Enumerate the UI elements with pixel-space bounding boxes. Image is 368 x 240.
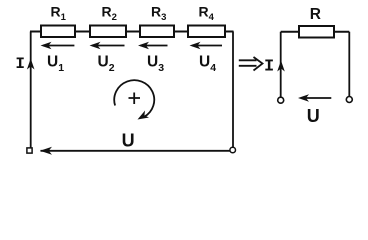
svg-text:I: I bbox=[264, 57, 274, 76]
svg-text:U: U bbox=[307, 106, 320, 126]
svg-text:I: I bbox=[15, 55, 25, 73]
svg-text:R: R bbox=[310, 6, 321, 23]
svg-text:U: U bbox=[122, 130, 135, 150]
